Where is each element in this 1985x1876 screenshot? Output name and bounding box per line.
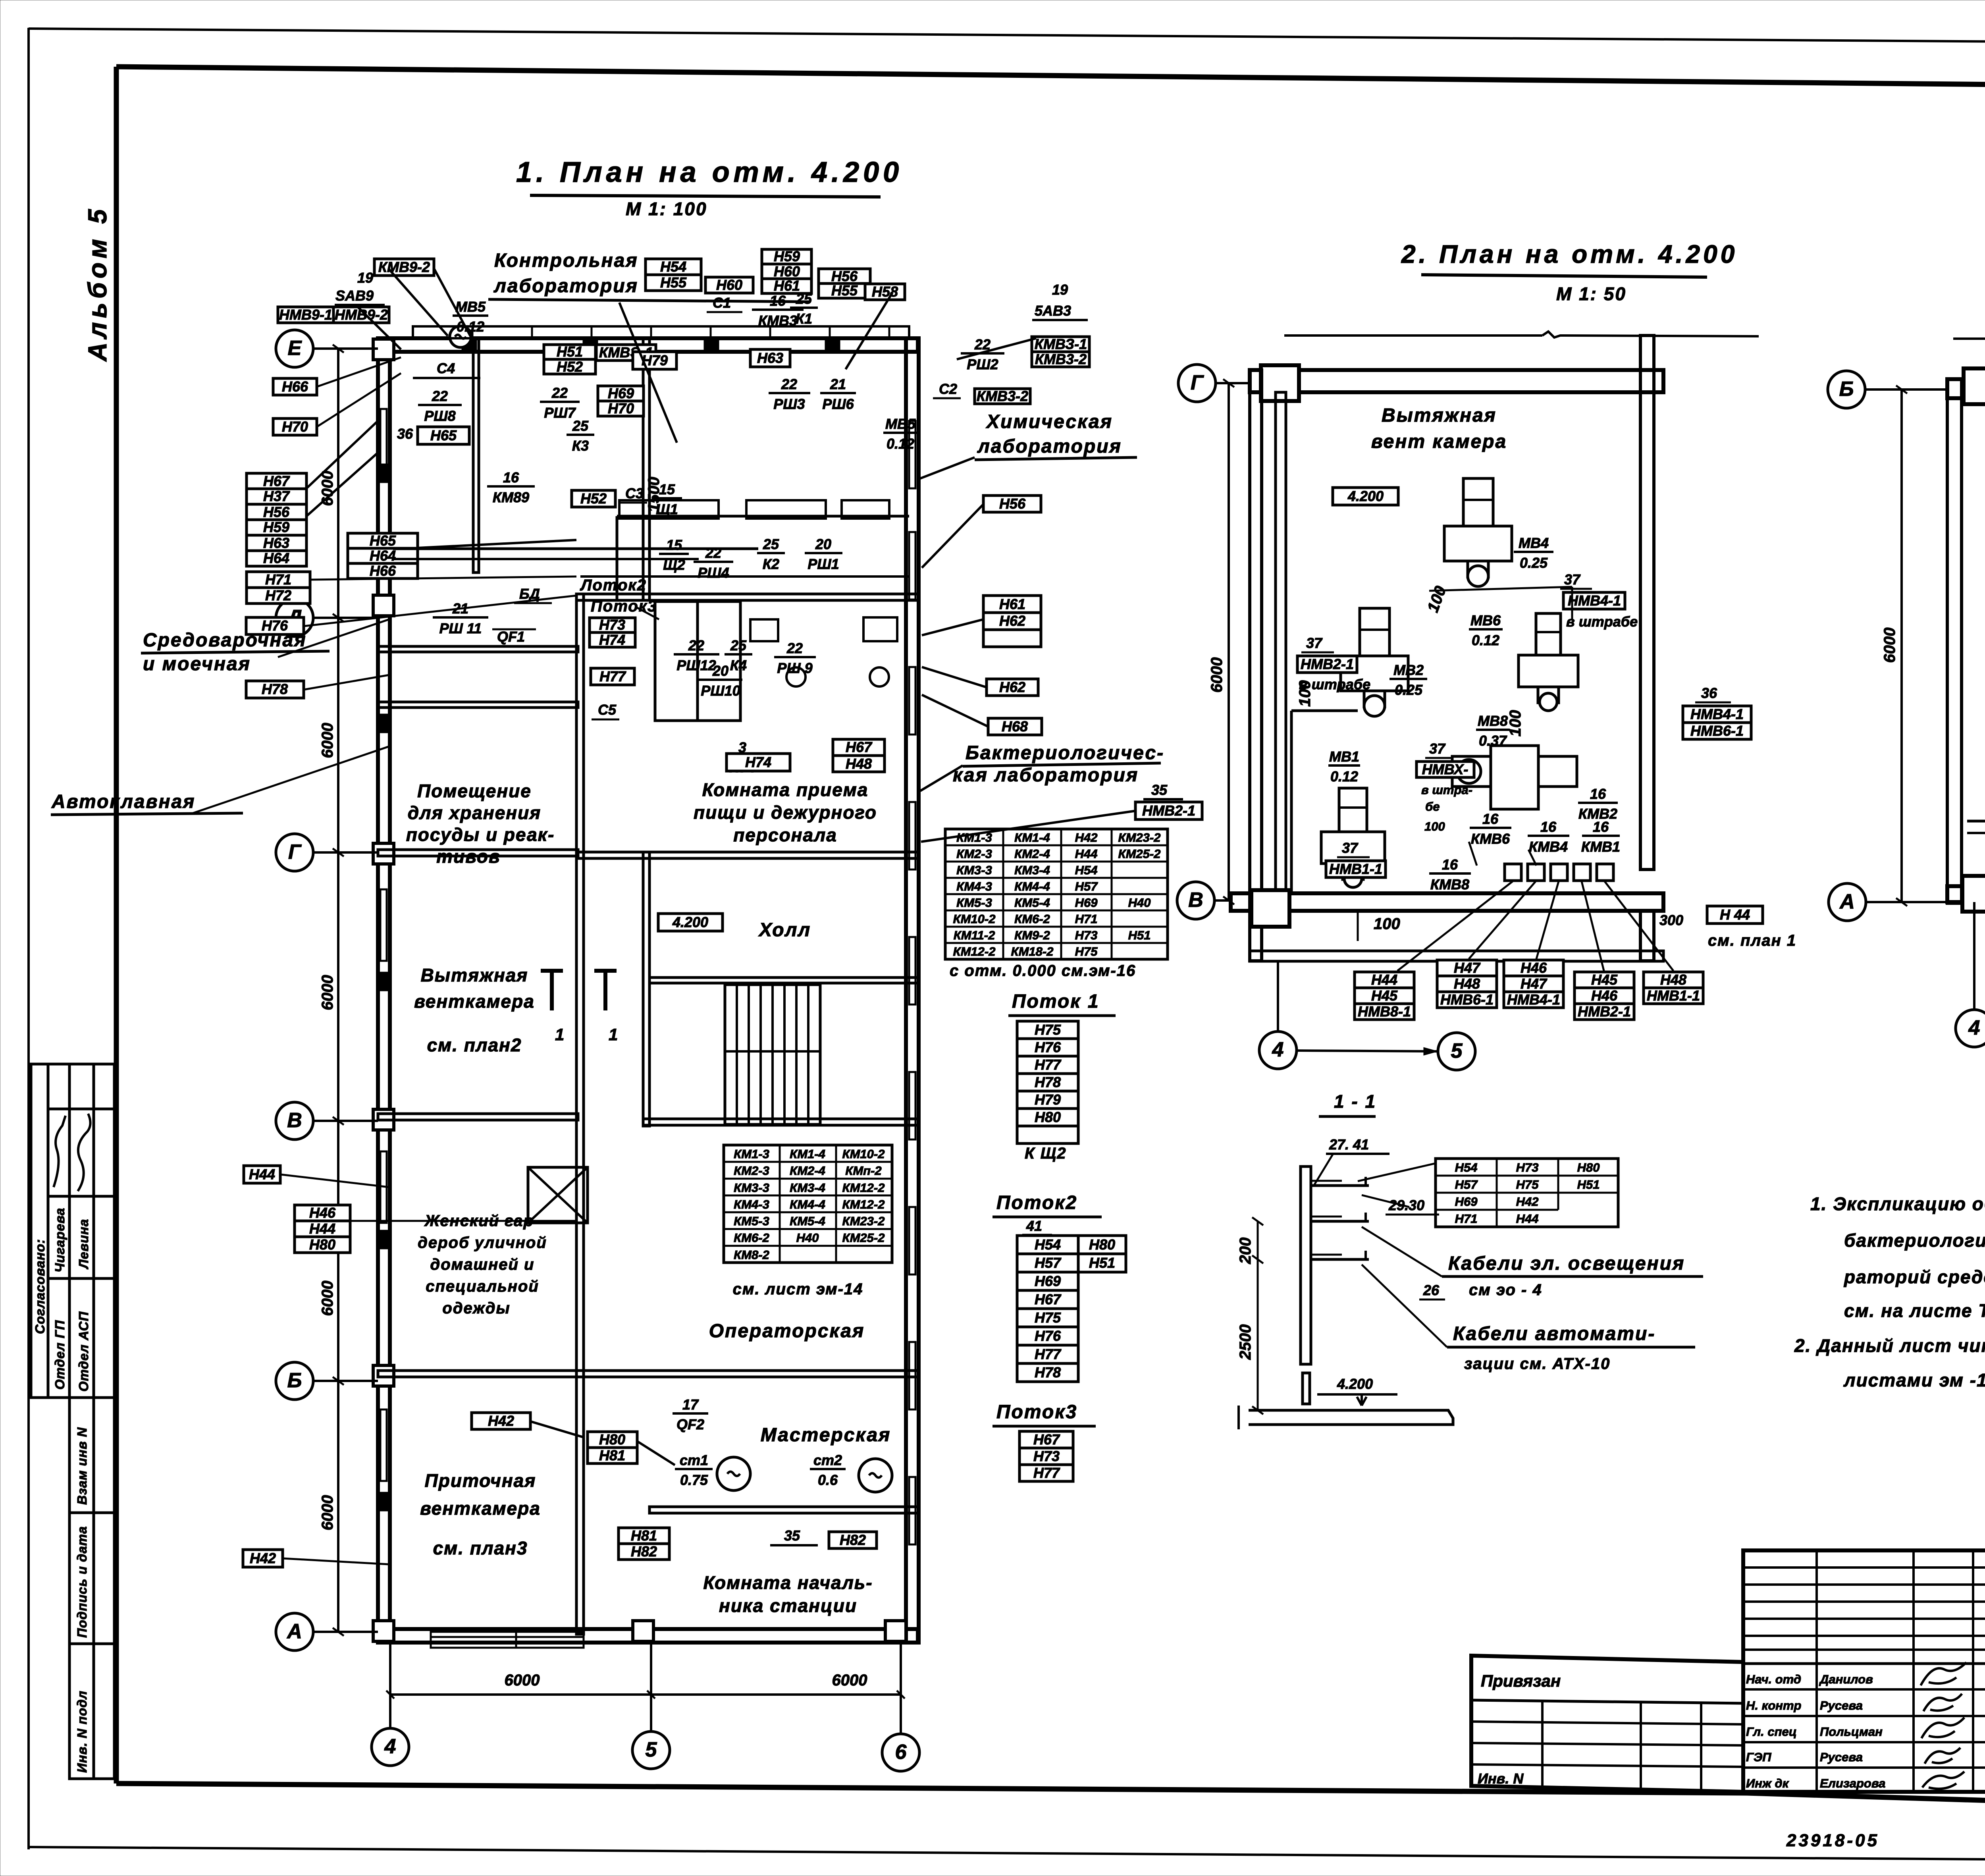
svg-text:37: 37 bbox=[1429, 740, 1446, 757]
axis leader Б bbox=[313, 1380, 378, 1382]
svg-text:КМ4-3: КМ4-3 bbox=[734, 1197, 769, 1211]
svg-text:КМ2-4: КМ2-4 bbox=[1014, 847, 1050, 861]
svg-text:С4: С4 bbox=[437, 360, 455, 376]
svg-text:Н48: Н48 bbox=[1454, 976, 1480, 992]
label 22/РШ3 bbox=[769, 376, 810, 412]
svg-text:6000: 6000 bbox=[505, 1672, 540, 1689]
svg-text:Н40: Н40 bbox=[796, 1231, 819, 1245]
svg-text:1500: 1500 bbox=[645, 477, 663, 512]
grid axis circle Г bbox=[1178, 364, 1216, 402]
svg-text:Н78: Н78 bbox=[1035, 1364, 1061, 1380]
svg-text:КМ3-3: КМ3-3 bbox=[734, 1181, 769, 1195]
svg-text:Н80: Н80 bbox=[309, 1236, 335, 1253]
wardrobe X-brace box bbox=[528, 1167, 588, 1223]
label 20/РШ1 bbox=[805, 536, 842, 572]
svg-text:С5: С5 bbox=[598, 702, 617, 718]
sidebar signature squiggle 2 bbox=[78, 1114, 91, 1191]
svg-text:Инв. N подл: Инв. N подл bbox=[75, 1691, 89, 1773]
svg-text:К3: К3 bbox=[572, 438, 589, 454]
svg-text:1: 1 bbox=[555, 1025, 564, 1044]
svg-text:и моечная: и моечная bbox=[143, 654, 251, 675]
section leaders to table bbox=[1358, 1163, 1436, 1181]
svg-text:НМВ1-1: НМВ1-1 bbox=[1329, 861, 1382, 877]
svg-text:Н54: Н54 bbox=[1075, 863, 1098, 877]
grid axis circle В bbox=[276, 1102, 313, 1139]
svg-text:КМ1-3: КМ1-3 bbox=[956, 831, 992, 844]
svg-text:0.37: 0.37 bbox=[1479, 733, 1507, 749]
fan МВ1 plan2 bbox=[1321, 788, 1385, 887]
label 25/К4 bbox=[725, 637, 752, 673]
label stack Н75/Н76/Н77/Н78/Н79/Н80/ bbox=[1017, 1021, 1078, 1143]
svg-text:6000: 6000 bbox=[1881, 628, 1898, 663]
plan2 leader lines from squares to labels bbox=[1397, 881, 1513, 971]
label box Н82 bbox=[829, 1532, 877, 1548]
svg-text:КМ5-3: КМ5-3 bbox=[956, 896, 992, 910]
svg-text:КМ1-3: КМ1-3 bbox=[734, 1147, 769, 1161]
svg-text:НМВ1-1: НМВ1-1 bbox=[1647, 987, 1700, 1004]
svg-text:Кабели автомати-: Кабели автомати- bbox=[1453, 1323, 1655, 1344]
svg-text:см. план 1: см. план 1 bbox=[1708, 932, 1796, 949]
svg-text:Н76: Н76 bbox=[1035, 1328, 1061, 1344]
label stack НМВ9-2 bbox=[333, 307, 389, 323]
plan2 left wall outer bbox=[1250, 370, 1262, 961]
axis leader Е bbox=[313, 347, 378, 350]
svg-text:100: 100 bbox=[1507, 710, 1524, 737]
svg-text:НМВ4-1: НМВ4-1 bbox=[1507, 991, 1560, 1008]
motor CT2 circle bbox=[859, 1459, 892, 1492]
svg-text:Н69: Н69 bbox=[1455, 1195, 1478, 1209]
svg-text:Н78: Н78 bbox=[1035, 1074, 1061, 1090]
plan2 five junction squares bbox=[1505, 864, 1521, 881]
plan2 left dim line bbox=[1228, 383, 1230, 900]
label МВ1/0.12 bbox=[1328, 748, 1360, 785]
svg-text:Н80: Н80 bbox=[1035, 1109, 1061, 1125]
plan1 lotok2 duct line bbox=[580, 575, 909, 578]
svg-text:КМ6-2: КМ6-2 bbox=[734, 1231, 769, 1245]
svg-text:Н42: Н42 bbox=[250, 1550, 276, 1566]
svg-text:КМ12-2: КМ12-2 bbox=[953, 945, 996, 958]
svg-text:20: 20 bbox=[815, 536, 831, 552]
grid axis circle Д bbox=[276, 599, 313, 636]
section label table bbox=[1436, 1159, 1618, 1227]
label box НМВ2-1 bbox=[1297, 656, 1357, 673]
leader Поток3/Лоток2 lines bbox=[635, 607, 659, 619]
svg-text:Н67: Н67 bbox=[846, 739, 873, 755]
svg-text:КМВ4: КМВ4 bbox=[1529, 839, 1568, 855]
svg-text:Н67: Н67 bbox=[1035, 1291, 1062, 1307]
plan2 bottom wall bbox=[1250, 951, 1663, 961]
svg-text:РШ2: РШ2 bbox=[967, 356, 998, 372]
svg-text:22: 22 bbox=[781, 376, 797, 392]
label 15/Щ1 bbox=[652, 481, 682, 517]
svg-text:37: 37 bbox=[1564, 571, 1581, 588]
svg-text:НМВ2-1: НМВ2-1 bbox=[1578, 1003, 1631, 1020]
plan1 wall G left part bbox=[378, 850, 578, 856]
svg-text:Поток3: Поток3 bbox=[996, 1402, 1077, 1423]
svg-text:Н67: Н67 bbox=[1033, 1431, 1060, 1448]
svg-text:SАВ9: SАВ9 bbox=[335, 287, 374, 304]
sidebar stamp table outline bbox=[31, 1064, 114, 1398]
label box Н42 bbox=[472, 1413, 530, 1429]
svg-text:Н59: Н59 bbox=[774, 248, 800, 264]
plan3 grid box B bbox=[1964, 368, 1985, 404]
svg-text:КМ5-3: КМ5-3 bbox=[734, 1214, 769, 1228]
svg-text:Н73: Н73 bbox=[1516, 1161, 1539, 1174]
label stack Н54/Н57/Н69/Н67/Н75/Н76/Н77/Н78 bbox=[1017, 1236, 1078, 1382]
svg-text:Е: Е bbox=[288, 337, 302, 360]
label box Н79 bbox=[633, 352, 676, 369]
svg-text:25: 25 bbox=[796, 291, 812, 307]
svg-text:Н44: Н44 bbox=[1516, 1212, 1539, 1226]
plan1 lab partition vertical 2 E-D bbox=[473, 338, 479, 573]
grid axis circle 4 bbox=[372, 1728, 409, 1766]
svg-text:Н77: Н77 bbox=[1033, 1465, 1060, 1481]
svg-text:венткамера: венткамера bbox=[420, 1498, 541, 1519]
svg-text:2500: 2500 bbox=[1237, 1325, 1254, 1360]
plan1 wall D right part bbox=[576, 594, 919, 600]
svg-text:Гл. спец: Гл. спец bbox=[1746, 1725, 1797, 1739]
svg-text:Н70: Н70 bbox=[608, 400, 634, 416]
svg-text:22: 22 bbox=[688, 637, 704, 654]
svg-text:1. Экспликацию оборудования: 1. Экспликацию оборудования химической bbox=[1810, 1193, 1985, 1214]
svg-text:25: 25 bbox=[730, 637, 747, 654]
svg-text:лаборатория: лаборатория bbox=[977, 436, 1122, 457]
label stack Н47/Н48/НМВ6-1 bbox=[1437, 960, 1497, 1008]
svg-text:МВ8: МВ8 bbox=[1478, 713, 1508, 729]
sidebar row line c bbox=[48, 1277, 114, 1280]
svg-text:КМ6-2: КМ6-2 bbox=[1014, 912, 1050, 926]
svg-text:Н82: Н82 bbox=[631, 1543, 657, 1560]
svg-text:0.6: 0.6 bbox=[818, 1472, 838, 1488]
svg-text:4: 4 bbox=[1272, 1038, 1284, 1061]
svg-text:16: 16 bbox=[1593, 819, 1609, 835]
plan1 doorway arcs hall bbox=[582, 1012, 585, 1052]
svg-text:Русева: Русева bbox=[1820, 1750, 1863, 1764]
svg-text:РШ 11: РШ 11 bbox=[439, 620, 482, 636]
label box Н66 bbox=[273, 378, 317, 395]
Привязан rows bbox=[1471, 1722, 1743, 1724]
signature squiggles bbox=[1921, 1662, 1966, 1685]
svg-text:РШ3: РШ3 bbox=[773, 396, 805, 412]
svg-text:Н45: Н45 bbox=[1591, 972, 1618, 988]
plan1 stair landing line bbox=[725, 1050, 820, 1053]
svg-text:Н48: Н48 bbox=[1660, 972, 1686, 988]
svg-text:РШ6: РШ6 bbox=[822, 396, 854, 412]
svg-text:Н52: Н52 bbox=[580, 490, 607, 507]
svg-text:16: 16 bbox=[1482, 811, 1499, 827]
svg-text:22: 22 bbox=[705, 545, 721, 561]
svg-text:Б: Б bbox=[1839, 378, 1854, 401]
svg-text:вент камера: вент камера bbox=[1371, 431, 1507, 452]
plan2 dim 100 below wall bbox=[1357, 911, 1359, 941]
plan2 top wall bbox=[1250, 370, 1663, 392]
svg-text:Контрольная: Контрольная bbox=[494, 250, 638, 271]
svg-text:Н 44: Н 44 bbox=[1720, 906, 1750, 923]
svg-text:Н54: Н54 bbox=[1455, 1161, 1478, 1174]
label 25/К1 bbox=[790, 291, 818, 327]
svg-text:Данилов: Данилов bbox=[1819, 1672, 1873, 1686]
svg-text:Н62: Н62 bbox=[999, 613, 1025, 629]
motor CT1 circle bbox=[717, 1457, 750, 1490]
svg-text:КМ23-2: КМ23-2 bbox=[1118, 831, 1161, 844]
plan3 left dim line bbox=[1900, 389, 1903, 902]
plan2 axis 4-5 arrow line bbox=[1297, 1051, 1438, 1051]
svg-text:100: 100 bbox=[1424, 819, 1445, 833]
plan1 hall upper corridor wall bbox=[649, 978, 919, 983]
svg-text:Привязан: Привязан bbox=[1481, 1672, 1561, 1690]
svg-text:КМ3-4: КМ3-4 bbox=[1014, 863, 1050, 877]
svg-text:КМ4-4: КМ4-4 bbox=[790, 1197, 825, 1211]
svg-text:4.200: 4.200 bbox=[672, 914, 708, 930]
svg-text:К Щ2: К Щ2 bbox=[1025, 1145, 1067, 1162]
plan1 lab bench long lines E-D bbox=[393, 548, 758, 550]
label box Н52 bbox=[572, 490, 615, 507]
svg-text:Н44: Н44 bbox=[1075, 847, 1098, 861]
Привязан col lines bbox=[1541, 1702, 1544, 1791]
svg-text:Н59: Н59 bbox=[263, 519, 289, 535]
svg-text:Н52: Н52 bbox=[557, 359, 583, 375]
svg-text:6: 6 bbox=[895, 1741, 907, 1764]
svg-text:МВ5: МВ5 bbox=[455, 299, 486, 315]
svg-text:Н57: Н57 bbox=[1035, 1255, 1062, 1271]
axis leader В bbox=[313, 1120, 378, 1122]
svg-text:Н76: Н76 bbox=[262, 617, 288, 634]
svg-text:Н57: Н57 bbox=[1075, 879, 1098, 893]
svg-text:Лоток2: Лоток2 bbox=[580, 576, 647, 594]
svg-text:Н75: Н75 bbox=[1035, 1022, 1061, 1038]
plan2 grid box G bbox=[1261, 365, 1299, 401]
svg-text:1. План на отм. 4.200: 1. План на отм. 4.200 bbox=[516, 156, 903, 188]
page outer border bottom bbox=[29, 1847, 1985, 1863]
svg-text:6000: 6000 bbox=[1208, 657, 1226, 693]
plan2 right wall lower piece bbox=[1640, 911, 1654, 961]
svg-text:К1: К1 bbox=[796, 310, 812, 327]
svg-text:0.12: 0.12 bbox=[887, 436, 914, 452]
svg-text:дероб уличной: дероб уличной bbox=[418, 1234, 547, 1251]
svg-text:листами эм -16, эм -18: листами эм -16, эм -18 bbox=[1843, 1370, 1985, 1390]
svg-text:Подпись и дата: Подпись и дата bbox=[75, 1526, 89, 1638]
svg-text:22: 22 bbox=[786, 640, 803, 656]
sidebar col line 1 bbox=[47, 1064, 50, 1398]
svg-text:Н69: Н69 bbox=[608, 385, 634, 401]
plan1 top wall row E bbox=[378, 338, 918, 352]
plan1 fan symbol on wall E bbox=[450, 326, 471, 347]
svg-text:К2: К2 bbox=[763, 556, 779, 572]
svg-text:29.30: 29.30 bbox=[1388, 1197, 1424, 1213]
middle table col lines bbox=[1815, 1550, 1818, 1792]
label 16/КМВ3 bbox=[752, 293, 804, 329]
label stack Н46/Н47/НМВ4-1 bbox=[1504, 960, 1563, 1008]
svg-text:Н75: Н75 bbox=[1516, 1178, 1539, 1192]
svg-text:М 1: 50: М 1: 50 bbox=[1556, 283, 1627, 304]
plan1 outer left wall bbox=[378, 338, 390, 1643]
svg-text:Поток 1: Поток 1 bbox=[1012, 991, 1100, 1012]
label stack Н67/Н37/Н56/Н59/Н63/Н64 bbox=[247, 473, 306, 566]
svg-text:специальной: специальной bbox=[426, 1278, 539, 1295]
svg-text:С3: С3 bbox=[625, 485, 644, 501]
svg-text:4: 4 bbox=[1968, 1016, 1980, 1039]
label stack Н48/НМВ1-1 bbox=[1644, 972, 1703, 1004]
svg-text:Н64: Н64 bbox=[370, 548, 396, 564]
label stack Н61/Н62/ bbox=[983, 596, 1041, 647]
label 25/К3 bbox=[567, 418, 594, 454]
svg-text:МВ2: МВ2 bbox=[1393, 662, 1424, 678]
svg-text:НМВ2-1: НМВ2-1 bbox=[1301, 656, 1354, 672]
svg-text:Н75: Н75 bbox=[1075, 945, 1098, 958]
svg-text:пищи и дежурного: пищи и дежурного bbox=[694, 802, 877, 823]
svg-text:Н80: Н80 bbox=[599, 1431, 625, 1448]
page outer border top bbox=[29, 29, 1985, 45]
svg-text:Кабели эл. освещения: Кабели эл. освещения bbox=[1448, 1253, 1685, 1274]
grid axis circle Г bbox=[276, 834, 313, 871]
label МВ6/0.12 bbox=[1469, 612, 1503, 648]
plan2 dim line top of fans bbox=[1429, 587, 1572, 591]
plan1 bottom dimension line bbox=[390, 1693, 901, 1696]
plan1 window hatch bottom wall bbox=[431, 1632, 516, 1648]
svg-text:41: 41 bbox=[1026, 1218, 1042, 1234]
leader from Автоклавная bbox=[191, 746, 389, 814]
svg-text:КМ2-3: КМ2-3 bbox=[956, 847, 992, 861]
middle table header split bbox=[1743, 1662, 1985, 1665]
fan МВ6 plan2 bbox=[1519, 613, 1578, 711]
section wall upper bbox=[1301, 1166, 1311, 1364]
section dim 200 2500 bbox=[1257, 1221, 1259, 1410]
plan1 wall B full bbox=[378, 1371, 919, 1377]
svg-text:Н55: Н55 bbox=[660, 274, 687, 291]
label stack КМВЗ-1/КМВ3-2 bbox=[1032, 336, 1089, 367]
plan2 row V wall bbox=[1231, 893, 1663, 911]
svg-text:Н78: Н78 bbox=[262, 681, 288, 697]
svg-text:РШ8: РШ8 bbox=[424, 408, 455, 424]
svg-text:КМ4-4: КМ4-4 bbox=[1014, 879, 1050, 893]
label stack Н59/Н60/Н61 bbox=[762, 248, 811, 294]
svg-text:Н42: Н42 bbox=[488, 1413, 514, 1429]
svg-text:КМВ8: КМВ8 bbox=[1430, 876, 1469, 893]
plan1 lab bench vertical wall bbox=[616, 516, 619, 600]
svg-text:кая лаборатория: кая лаборатория bbox=[953, 765, 1139, 786]
plan1 outer right wall bbox=[906, 338, 919, 1643]
svg-text:КМ10-2: КМ10-2 bbox=[842, 1147, 885, 1161]
label box Н58 bbox=[865, 283, 905, 300]
svg-text:Н44: Н44 bbox=[249, 1166, 275, 1182]
svg-text:Вытяжная: Вытяжная bbox=[421, 965, 528, 985]
section wall lower bbox=[1303, 1373, 1310, 1404]
label stack Н44/Н45/НМВ8-1 bbox=[1355, 972, 1414, 1020]
svg-text:Приточная: Приточная bbox=[425, 1470, 536, 1491]
svg-text:Н66: Н66 bbox=[282, 378, 308, 395]
plan1 masterskaya bottom wall bbox=[649, 1507, 919, 1513]
grid axis circle Б bbox=[1828, 371, 1865, 408]
svg-text:Операторская: Операторская bbox=[709, 1321, 865, 1342]
svg-text:Комната приема: Комната приема bbox=[702, 779, 869, 800]
label 15/Щ2 bbox=[659, 537, 689, 573]
svg-text:см. на листе ТХ.: см. на листе ТХ. bbox=[1844, 1300, 1985, 1321]
plan1 room wall D left part b bbox=[378, 702, 578, 708]
label МВ2/0.25 bbox=[1389, 662, 1427, 698]
plan1 grid column boxes on bottom wall bbox=[633, 1621, 653, 1641]
section cable trays bbox=[1311, 1184, 1369, 1187]
label 16/КМВ1 bbox=[1581, 819, 1620, 855]
svg-text:К4: К4 bbox=[730, 657, 747, 673]
plan1 grid column boxes on left wall bbox=[373, 339, 394, 360]
svg-text:100: 100 bbox=[1374, 915, 1400, 933]
svg-text:в штрабе: в штрабе bbox=[1566, 613, 1638, 630]
label 25/К2 bbox=[757, 536, 785, 572]
svg-text:Н51: Н51 bbox=[1128, 928, 1151, 942]
label box КМВ3-2 bbox=[975, 388, 1030, 404]
label box Н78 bbox=[246, 681, 304, 698]
svg-text:В: В bbox=[287, 1109, 302, 1132]
svg-text:персонала: персонала bbox=[733, 825, 837, 845]
svg-text:одежды: одежды bbox=[442, 1300, 510, 1317]
svg-text:Н66: Н66 bbox=[370, 563, 396, 579]
sidebar signature squiggle 1 bbox=[54, 1116, 66, 1187]
svg-text:КМп-2: КМп-2 bbox=[845, 1164, 881, 1178]
label stack Н65/Н64/Н66 bbox=[348, 532, 418, 579]
svg-text:6000: 6000 bbox=[319, 1495, 336, 1531]
svg-text:Н71: Н71 bbox=[265, 571, 291, 588]
svg-text:Инв. N: Инв. N bbox=[1478, 1770, 1524, 1787]
plan1 chem lab bench band bbox=[617, 515, 909, 518]
extra leader lines plan1 left margin bbox=[306, 421, 378, 488]
section cut marker 1 (right) bbox=[603, 971, 607, 1010]
label box Н42 bbox=[243, 1550, 283, 1567]
plan1 lab partition vertical E-D bbox=[643, 338, 649, 600]
svg-text:КМ12-2: КМ12-2 bbox=[842, 1197, 885, 1211]
svg-text:КМ5-4: КМ5-4 bbox=[790, 1214, 825, 1228]
grid axis circle 5 bbox=[632, 1731, 670, 1769]
fan МВ8 plan2 (horizontal) bbox=[1452, 746, 1577, 809]
label 22/РШ7 bbox=[540, 385, 580, 421]
grid axis circle В bbox=[1177, 882, 1214, 919]
label 16/КМВ8 bbox=[1429, 856, 1471, 893]
svg-text:Холл: Холл bbox=[758, 920, 811, 941]
leader from НМВ2-1 to plan1 wall bbox=[921, 811, 1136, 842]
svg-text:КМ25-2: КМ25-2 bbox=[842, 1231, 885, 1245]
svg-text:М 1: 100: М 1: 100 bbox=[626, 199, 707, 219]
svg-text:ст2: ст2 bbox=[813, 1452, 842, 1468]
plan1 top wall piers bbox=[463, 338, 476, 352]
KM table in Operatorskaya bbox=[724, 1145, 892, 1263]
label 22/РШ2 bbox=[961, 336, 1004, 372]
label box Н62 bbox=[987, 679, 1038, 696]
svg-text:Н58: Н58 bbox=[872, 283, 898, 300]
plan2 interior partition vertical bbox=[1290, 711, 1293, 895]
plan3 top boundary line bbox=[1953, 337, 1985, 340]
plan2 right wall upper bbox=[1640, 335, 1654, 870]
svg-text:6000: 6000 bbox=[319, 723, 336, 758]
svg-text:НМВ8-1: НМВ8-1 bbox=[1358, 1003, 1411, 1020]
svg-text:НМВ9-1: НМВ9-1 bbox=[279, 307, 332, 323]
label 16/КМВ6 bbox=[1470, 811, 1511, 847]
label box Н60 bbox=[705, 277, 753, 293]
label stack Н67/Н48 bbox=[833, 739, 885, 772]
svg-text:зации см. АТХ-10: зации см. АТХ-10 bbox=[1464, 1355, 1610, 1373]
svg-text:РШ10: РШ10 bbox=[701, 683, 740, 699]
label stack Н71/Н72 bbox=[247, 571, 310, 603]
middle table sig rows bbox=[1743, 1688, 1985, 1691]
label МВ8/0.37 bbox=[1476, 713, 1510, 749]
label box Н70 bbox=[273, 418, 317, 435]
plan1 stairwell box bbox=[725, 985, 820, 1124]
svg-text:венткамера: венткамера bbox=[414, 991, 535, 1012]
plan1 wall V right part bbox=[643, 1119, 919, 1125]
svg-text:ст1: ст1 bbox=[680, 1452, 708, 1468]
grid axis circle А bbox=[1829, 883, 1866, 921]
plan1 left dimension line bbox=[337, 349, 339, 1632]
svg-text:5: 5 bbox=[646, 1738, 657, 1761]
svg-text:см. лист эм-14: см. лист эм-14 bbox=[733, 1280, 863, 1298]
